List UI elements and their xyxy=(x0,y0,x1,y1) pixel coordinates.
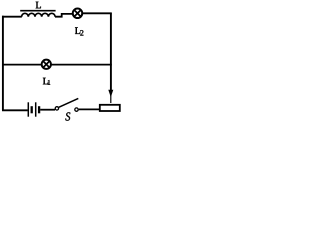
wire from coil to lamp L2 (with step up) xyxy=(55,14,73,17)
wire middle horizontal right xyxy=(51,64,112,66)
rheostat box xyxy=(100,105,120,111)
label L xyxy=(36,2,41,9)
label S xyxy=(65,112,70,120)
wire bottom left xyxy=(2,109,28,111)
rheostat slider arrow xyxy=(108,90,113,103)
label L1 xyxy=(43,78,48,84)
wire switch to rheostat xyxy=(79,108,101,110)
wire right vertical xyxy=(110,13,112,90)
label L2 xyxy=(75,27,80,33)
wire left vertical xyxy=(2,16,4,111)
inductor L coil xyxy=(22,13,56,17)
wire battery to switch xyxy=(40,109,55,111)
wire middle horizontal left xyxy=(2,64,42,66)
lamp L2 xyxy=(73,9,83,18)
lamp L1 xyxy=(42,60,51,69)
wire lamp L2 to top right corner xyxy=(82,12,112,14)
battery xyxy=(28,102,39,116)
background xyxy=(0,0,123,122)
switch S xyxy=(55,98,78,111)
inductor L core bar xyxy=(20,10,55,12)
wire top left horizontal xyxy=(2,16,22,18)
